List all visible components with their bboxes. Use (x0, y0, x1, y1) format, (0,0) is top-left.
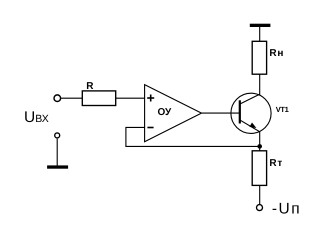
transistor VT1 (NPN) (231, 93, 271, 133)
svg-text:Rт: Rт (269, 158, 283, 169)
junction emitter node (257, 144, 262, 149)
op-amp ОУ triangle (145, 85, 202, 142)
node input terminal Uвх (54, 95, 61, 102)
wire emitter to Rт (259, 132, 261, 151)
svg-text:ОУ: ОУ (158, 107, 173, 118)
node -Uп supply terminal (257, 205, 263, 211)
svg-text:Rн: Rн (269, 48, 284, 59)
wire Rт to -Uп terminal (259, 185, 261, 204)
wire collector to Rн (259, 74, 261, 95)
pin label − (inverting input) (147, 127, 153, 129)
svg-text:-Uп: -Uп (272, 200, 301, 217)
node ground terminal (55, 133, 60, 138)
wire Rн to top rail (259, 26, 261, 41)
wire feedback emitter node to op-amp inverting input (126, 127, 260, 146)
ground bar (47, 165, 68, 168)
svg-text:R: R (86, 81, 94, 92)
resistor R (82, 91, 115, 106)
pin label + (noninverting input) (147, 95, 154, 102)
power rail bar (common) (250, 24, 271, 27)
wire ground terminal to ground bar (56, 139, 58, 166)
resistor Rт (252, 151, 266, 186)
svg-text:VT1: VT1 (276, 105, 289, 114)
wire R to op-amp noninverting input (116, 97, 145, 99)
wire op-amp output to base of VT1 (202, 112, 240, 114)
resistor Rн (252, 41, 266, 74)
wire input terminal to R (61, 97, 82, 99)
